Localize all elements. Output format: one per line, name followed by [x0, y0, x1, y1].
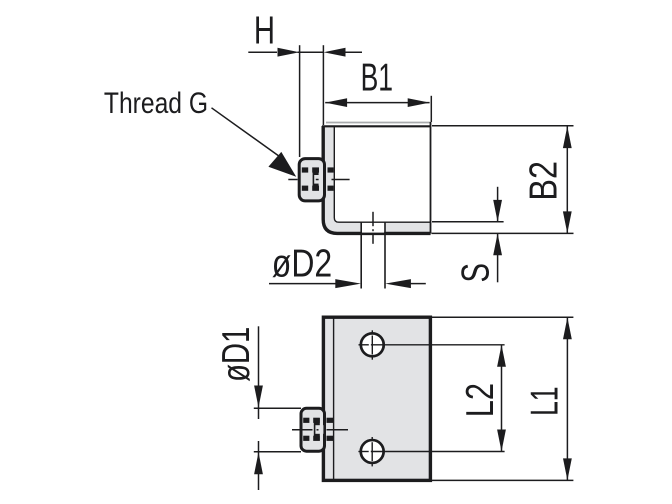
hole 1 centerlines [359, 330, 505, 359]
thread core bar [314, 418, 320, 441]
thread dashes row 2 [303, 436, 333, 441]
stud centerline (dash-dot, top view) [288, 179, 349, 181]
threaded stud (left, top view) [299, 159, 324, 201]
body top faint line [326, 122, 430, 124]
stud centerline (dash-dot, bottom view) [292, 429, 348, 431]
svg-text:S: S [454, 263, 497, 283]
svg-text:L2: L2 [458, 383, 501, 417]
dimension øD2 [269, 283, 426, 285]
svg-text:øD2: øD2 [272, 241, 332, 285]
lower stud øD2 (top view) [360, 222, 362, 288]
body right edge [430, 122, 432, 233]
hole 2 [361, 440, 384, 463]
Thread G leader [212, 108, 284, 159]
bracket inner edge (thin) [334, 126, 430, 222]
svg-text:øD1: øD1 [215, 327, 258, 382]
stud pass-through gap in bracket leg [362, 223, 384, 233]
thread core bar [313, 168, 319, 191]
dimension L1 [432, 317, 573, 480]
thread dashes row 1 [302, 167, 334, 172]
threaded stud (left, bottom view) [301, 408, 325, 451]
dimension B1 [325, 96, 431, 122]
bracket outer edge (thick) [323, 126, 430, 233]
svg-text:H: H [254, 10, 275, 53]
svg-text:B2: B2 [522, 161, 566, 201]
L-bracket gray body (top view) [323, 126, 430, 233]
thread dashes row 1 [303, 418, 333, 423]
dimension H [248, 45, 362, 157]
dimension øD1 [254, 326, 301, 490]
thread dashes row 2 [302, 186, 334, 191]
dimension L2 [501, 345, 503, 451]
dimension S [432, 187, 504, 282]
hole 2 centerlines [358, 437, 504, 466]
hole 1 [361, 333, 384, 356]
plate body (bottom view) [323, 317, 430, 480]
body top edge [322, 125, 431, 127]
svg-text:B1: B1 [361, 57, 393, 100]
svg-text:L1: L1 [523, 386, 566, 415]
dimension B2 [432, 126, 574, 234]
lower stud centerline (dash-dot) [372, 212, 374, 244]
plate fold line [333, 317, 335, 480]
svg-text:Thread G: Thread G [104, 86, 208, 120]
